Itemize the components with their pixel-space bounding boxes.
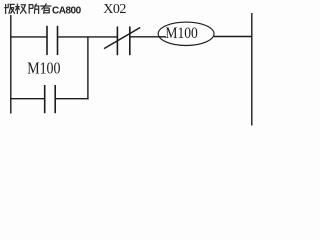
- contact X02 NC slash: [104, 28, 140, 49]
- char 有: [40, 3, 51, 13]
- char 权: [15, 4, 26, 14]
- wire: contact 1 to contact X02: [58, 36, 118, 38]
- wire: branch rung left segment: [10, 98, 44, 100]
- char 所: [29, 4, 40, 14]
- coil M100 ellipse: [158, 22, 214, 45]
- contact M100 (NO) on branch: [44, 85, 46, 113]
- wire: left rail to contact 1: [10, 36, 47, 38]
- svg-text:M100: M100: [27, 59, 60, 78]
- wire: branch rung right segment: [55, 98, 88, 100]
- char 版: [4, 4, 15, 14]
- right power rail: [251, 13, 253, 126]
- wire: parallel branch vertical: [87, 37, 89, 100]
- contact X02 (NC) bars: [116, 27, 118, 56]
- wire: coil M100 to right rail: [214, 36, 252, 38]
- watermark text 版权所有 (drawn strokes): [4, 3, 51, 14]
- svg-text:M100: M100: [165, 25, 197, 42]
- left power rail: [10, 15, 12, 114]
- wire: contact X02 to coil M100: [130, 36, 166, 38]
- svg-text:CA800: CA800: [52, 5, 82, 16]
- svg-text:X02: X02: [103, 2, 126, 17]
- contact (NO) on rung 1: [46, 26, 48, 55]
